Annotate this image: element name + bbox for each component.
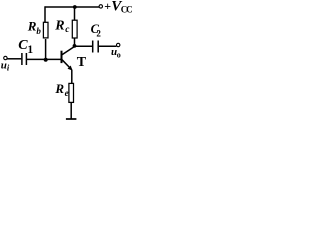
resistor Rc — [72, 20, 77, 38]
capacitor C2 — [92, 41, 94, 53]
svg-text:o: o — [117, 50, 121, 59]
resistor Rb — [43, 22, 48, 38]
svg-text:e: e — [65, 88, 69, 98]
transistor collector line — [62, 47, 74, 55]
svg-text:i: i — [7, 62, 10, 72]
svg-text:R: R — [54, 81, 64, 96]
wire Re bottom vertical — [70, 103, 72, 120]
svg-text:R: R — [54, 18, 64, 33]
wire C2 to output — [99, 45, 117, 47]
wire Rb top vertical — [44, 6, 46, 22]
ground bar — [66, 118, 77, 120]
wire input segment — [7, 58, 21, 60]
terminal output circle — [117, 43, 120, 46]
resistor Re — [69, 83, 74, 102]
transistor emitter arrowhead — [68, 66, 73, 71]
svg-text:2: 2 — [96, 28, 101, 38]
wire Rc top vertical — [74, 7, 76, 21]
wire Rc bottom vertical — [74, 38, 76, 46]
node dot rail/Rc junction — [73, 5, 77, 9]
svg-text:1: 1 — [27, 44, 33, 56]
svg-text:T: T — [77, 55, 87, 70]
terminal Vcc circle — [99, 5, 102, 8]
svg-text:b: b — [36, 26, 41, 36]
node dot collector junction — [73, 44, 77, 48]
node dot base junction — [44, 58, 48, 62]
svg-text:+: + — [104, 0, 111, 13]
wire emitter vertical — [71, 70, 73, 84]
transistor T base bar — [61, 51, 63, 63]
svg-text:R: R — [27, 19, 37, 34]
wire Rb bottom vertical — [45, 39, 47, 60]
terminal input circle — [4, 56, 7, 59]
svg-text:C: C — [126, 4, 133, 14]
svg-text:c: c — [65, 25, 70, 35]
wire base segment — [27, 58, 62, 60]
wire top rail — [45, 6, 100, 8]
transistor emitter line — [62, 60, 72, 70]
wire collector to C2 — [75, 45, 93, 47]
capacitor C1 — [21, 53, 23, 65]
